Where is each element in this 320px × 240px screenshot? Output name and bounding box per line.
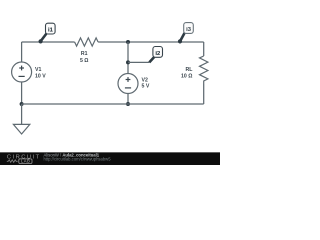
node junction bottom middle <box>126 102 130 106</box>
svg-text:i3: i3 <box>186 27 192 33</box>
wire top horizontal left segment <box>22 41 75 43</box>
resistor RL <box>200 56 208 84</box>
svg-text:i1: i1 <box>48 28 54 34</box>
svg-text:5 Ω: 5 Ω <box>80 58 89 64</box>
wire top horizontal right segment <box>98 41 204 43</box>
svg-text:10 Ω: 10 Ω <box>181 74 192 80</box>
voltage source V1 <box>12 62 32 82</box>
svg-text:5 V: 5 V <box>142 83 150 89</box>
svg-text:10 V: 10 V <box>35 73 46 79</box>
wire right vertical upper <box>203 42 205 56</box>
footer bar <box>0 152 220 165</box>
label V1 value <box>35 67 46 80</box>
voltage source V2 <box>118 74 138 94</box>
node junction top middle <box>126 40 130 44</box>
footer logo CircuitLab <box>7 155 41 164</box>
current label i2 <box>128 47 163 63</box>
wire middle vertical upper <box>127 42 129 74</box>
svg-text:http://circuitlab.com/c/rwwuph: http://circuitlab.com/c/rwwuphsabw5 <box>44 156 112 161</box>
resistor R1 <box>75 38 99 46</box>
svg-text:V1: V1 <box>35 67 41 73</box>
wire left vertical lower <box>21 82 23 104</box>
node i2 attach dot <box>126 60 130 64</box>
label RL value <box>181 67 193 80</box>
wire ground stub <box>21 104 23 124</box>
current label i3 <box>178 23 193 44</box>
ground <box>13 124 29 134</box>
node junction left-bottom <box>20 102 24 106</box>
label R1 value <box>80 51 89 64</box>
svg-text:LAB: LAB <box>21 159 30 164</box>
wire middle vertical lower <box>127 94 129 105</box>
svg-text:R1: R1 <box>81 51 88 57</box>
wire bottom horizontal <box>22 103 204 105</box>
footer text <box>44 152 100 157</box>
wire right vertical lower <box>203 84 205 104</box>
wire left vertical upper <box>21 42 23 62</box>
svg-text:i2: i2 <box>155 51 160 57</box>
current label i1 <box>39 23 56 43</box>
label V2 value <box>142 77 150 89</box>
svg-text:V2: V2 <box>142 77 148 83</box>
svg-text:RL: RL <box>185 67 193 73</box>
